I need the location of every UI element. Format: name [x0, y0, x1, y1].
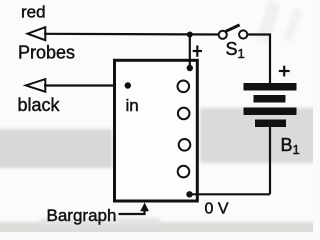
callout arrowhead to box [140, 203, 149, 212]
LED circle 1 [178, 81, 190, 93]
switch S1 lever [226, 25, 240, 31]
LED circle 4 [178, 166, 190, 178]
node: box + terminal dot [187, 65, 193, 71]
switch S1 left contact [219, 31, 227, 39]
label + (box input) [193, 46, 202, 57]
wire black probe [44, 84, 127, 86]
svg-text:red: red [21, 3, 46, 22]
wire switch to battery top [247, 35, 270, 84]
battery B1 plate 1 (long) [244, 83, 297, 91]
LED circle 2 [178, 108, 190, 120]
LED circle 3 [179, 139, 191, 151]
wire battery bottom down and left [269, 127, 271, 194]
probe arrow black [26, 79, 46, 92]
bargraph box [115, 60, 198, 201]
callout line Bargraph [119, 208, 145, 214]
svg-text:Bargraph: Bargraph [47, 206, 117, 225]
svg-text:Probes: Probes [18, 43, 75, 63]
switch S1 right contact [239, 30, 247, 38]
node: in terminal dot [125, 82, 131, 88]
battery B1 plate 4 (short) [255, 120, 286, 128]
node: box bottom terminal dot [186, 191, 192, 197]
svg-text:0 V: 0 V [205, 201, 229, 218]
svg-text:in: in [126, 96, 139, 115]
node A junction dot on red wire [187, 32, 193, 38]
probe arrow red [28, 27, 46, 40]
battery B1 plate 2 (short) [254, 95, 286, 103]
wire bottom (0V) [190, 193, 271, 195]
wire node A down to box terminal [189, 35, 191, 69]
svg-text:black: black [18, 95, 61, 115]
battery B1 plate 3 (long) [244, 108, 297, 116]
label + (battery) [279, 66, 290, 77]
wire red probe [44, 33, 221, 36]
